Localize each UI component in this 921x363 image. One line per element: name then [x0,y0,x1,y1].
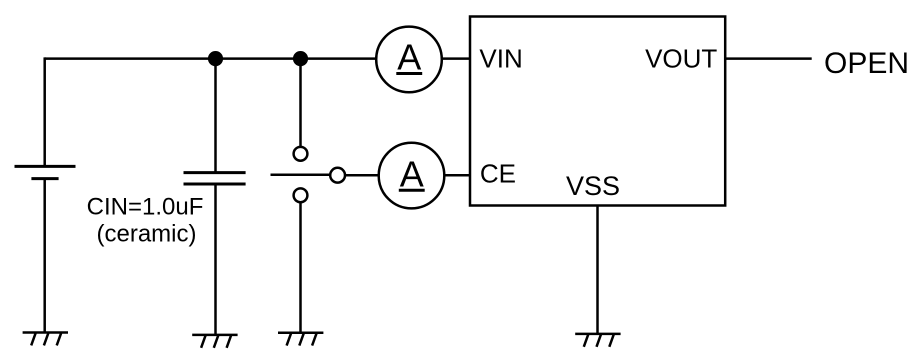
ammeter A1 body [376,27,442,93]
ground at battery [23,333,68,346]
capacitor CIN bottom plate [184,183,246,186]
ground at VSS [575,334,620,347]
svg-text:(ceramic): (ceramic) [97,221,197,248]
capacitor CIN top plate [184,171,246,174]
wire switch lower contact to ground [299,202,302,333]
ground at switch [278,333,323,346]
ammeter A1 meter underline [396,72,422,75]
wire battery negative lead [43,179,46,333]
wire VSS pin to ground [596,206,599,334]
ground at capacitor [192,335,237,348]
wire top rail from battery to ammeter A1 [45,57,377,60]
svg-text:VSS: VSS [566,171,620,201]
junction node at capacitor branch [208,51,223,66]
ammeter A2 body [379,143,445,209]
svg-text:A: A [400,154,424,195]
op-amp/regulator IC U1 box [470,17,725,206]
wire capacitor bottom lead [214,184,217,335]
wire capacitor top lead [214,59,217,173]
svg-text:OPEN: OPEN [824,47,909,80]
switch SW1 lever arm [271,174,331,177]
wire switch common to ammeter A2 [345,174,379,177]
svg-text:VOUT: VOUT [645,44,717,74]
svg-text:CE: CE [480,159,516,189]
switch SW1 lower contact terminal [294,188,308,202]
switch SW1 common terminal [330,168,345,183]
ammeter A2 meter underline [399,189,425,192]
wire switch branch from rail [299,59,302,147]
wire VOUT pin to OPEN [725,57,812,60]
wire battery positive lead [43,57,46,166]
wire ammeter A2 to CE pin [444,174,470,177]
battery BT1 positive plate [15,165,76,168]
svg-text:VIN: VIN [479,44,522,74]
battery BT1 negative plate [31,177,58,180]
wire ammeter A1 to VIN pin [442,57,470,60]
junction node at switch branch [293,51,308,66]
svg-text:CIN=1.0uF: CIN=1.0uF [87,193,204,220]
switch SW1 upper contact terminal [294,147,308,161]
svg-text:A: A [397,37,421,78]
